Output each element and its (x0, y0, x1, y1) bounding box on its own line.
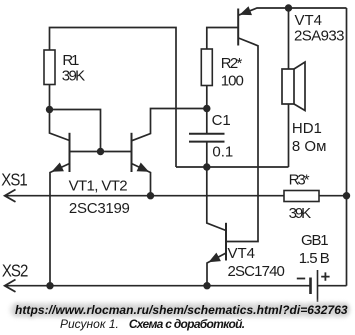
svg-text:GB1: GB1 (301, 232, 329, 249)
junction dot speaker branch on top wire (285, 4, 292, 11)
svg-text:VT4: VT4 (228, 245, 256, 262)
junction dot R3 right on rail (343, 192, 350, 199)
transistor VT2 collector up to R2 bottom junction (132, 109, 207, 141)
arrowhead VT4 2SC1740 emitter (209, 253, 221, 263)
arrowhead VT1 emitter (52, 163, 64, 172)
resistor R1 body (44, 50, 55, 85)
svg-text:8 Ом: 8 Ом (292, 138, 327, 155)
XS1 open arrowhead (5, 190, 16, 202)
wire lower horizontal rail y=167 (176, 166, 289, 168)
right rail vertical (346, 8, 348, 286)
battery GB1 long plate (317, 270, 319, 302)
capacitor C1 plates (189, 134, 225, 142)
svg-text:2SC1740: 2SC1740 (228, 263, 285, 280)
wire C1 bottom plate to junction (206, 142, 208, 167)
wire XS2 line left of battery (5, 285, 311, 287)
speaker HD1 box (282, 69, 294, 104)
junction dot R1 bottom (46, 106, 53, 113)
wire R3 right lead to rail (319, 195, 347, 197)
XS2 open arrowhead (5, 280, 16, 292)
svg-text:2SA933: 2SA933 (294, 28, 345, 45)
wire XS1 line left of R3 (5, 195, 284, 197)
junction dot R2 bottom / C1 top (203, 105, 210, 112)
battery plus sign (321, 272, 329, 280)
arrowhead VT2 emitter (137, 163, 149, 172)
transistor VT4 2SC1740 bar (225, 223, 227, 261)
svg-text:1.5 В: 1.5 В (299, 250, 330, 267)
resistor R2 body (201, 49, 212, 86)
junction dot base rail (97, 148, 104, 155)
svg-text:XS1: XS1 (1, 170, 27, 189)
svg-text:R2*: R2* (221, 55, 243, 72)
arrowhead VT4 2SA933 emitter (240, 6, 253, 15)
resistor R3 body (284, 191, 319, 202)
speaker HD1 top lead (288, 8, 290, 69)
battery minus sign (297, 278, 305, 280)
speaker HD1 horn (294, 62, 305, 111)
svg-text:VT4: VT4 (295, 12, 323, 29)
wire R1 junction over and down to base rail junction (50, 110, 101, 152)
svg-text:XS2: XS2 (2, 261, 28, 280)
transistor VT1 collector (50, 110, 70, 141)
transistor VT4 2SC1740 collector vertical from junction (207, 167, 226, 231)
svg-text:R1: R1 (62, 52, 79, 69)
transistor VT4 2SA933 emitter and top wire to right rail (239, 8, 347, 15)
wire R2 top up and right to VT4 2SA933 base (207, 28, 238, 50)
junction dot VT2 emitter on XS1 line (147, 192, 154, 199)
wire top-left loop: R1 top, top rail, mid vertical down to lower rail (50, 28, 177, 168)
wire base rail between VT1 and VT2 (70, 151, 132, 153)
caption (60, 317, 244, 331)
svg-text:C1: C1 (212, 112, 231, 129)
transistor VT4 2SA933 bar (237, 9, 239, 46)
svg-text:2SC3199: 2SC3199 (69, 200, 130, 217)
junction dot C1 bottom (203, 163, 210, 170)
transistor VT2 bar (131, 133, 133, 172)
wire R2 bottom to C1 top plate (206, 86, 208, 134)
svg-text:0.1: 0.1 (212, 144, 233, 161)
wire R1 bottom lead (49, 85, 51, 110)
junction dot VT4 emitter on XS2 rail (203, 282, 210, 289)
wire battery plus plate to right rail corner (318, 285, 347, 287)
speaker HD1 bottom lead (288, 104, 290, 167)
transistor VT4 2SC1740 emitter down to XS2 rail (207, 253, 226, 286)
transistor VT2 emitter down to XS1 line (132, 164, 151, 196)
svg-text:VT1, VT2: VT1, VT2 (69, 178, 128, 195)
svg-text:R3*: R3* (289, 172, 310, 189)
battery GB1 short plate (309, 278, 312, 295)
svg-text:HD1: HD1 (292, 120, 322, 137)
junction dot VT1 emitter on XS2 rail (46, 282, 53, 289)
svg-text:39K: 39K (62, 67, 85, 84)
svg-text:39K: 39K (289, 205, 312, 222)
svg-text:100: 100 (221, 73, 244, 90)
transistor VT1 emitter down to XS2 rail (50, 164, 70, 286)
transistor VT1 bar (69, 133, 71, 172)
URL watermark band (10, 303, 350, 317)
transistor VT4 2SC1740 base wire from 2SA933 collector (226, 38, 258, 242)
